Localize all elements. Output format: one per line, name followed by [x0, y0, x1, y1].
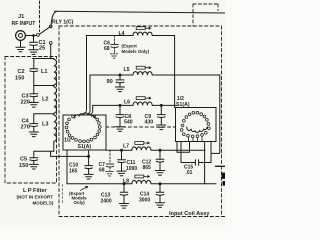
- svg-text:220: 220: [21, 100, 30, 106]
- wire L5 row: [90, 75, 133, 112]
- inductor L3: [54, 114, 57, 152]
- capacitor C15: [181, 160, 211, 166]
- L5 tuning slug: [136, 66, 151, 69]
- wire L4 to S1(B): [174, 36, 176, 108]
- svg-text:(Export: (Export: [122, 44, 138, 49]
- svg-text:L7: L7: [123, 144, 129, 150]
- wire S1(B) to C15: [180, 142, 182, 163]
- ground (J1 shell): [16, 40, 25, 51]
- wire armature riser curve: [51, 11, 57, 27]
- inductor L6: [133, 102, 177, 105]
- rotary switch S1(B) rear wafer box: [176, 108, 217, 142]
- inductor L1: [54, 59, 57, 86]
- relay mechanical linkage (dashed): [39, 1, 41, 32]
- connector J1: [16, 31, 26, 41]
- ground (C8): [115, 127, 124, 132]
- svg-text:J1: J1: [18, 14, 24, 20]
- ground (C6, dashed): [110, 54, 118, 58]
- capacitor C3: [30, 86, 38, 103]
- rotary switch S1(A) front wafer box: [63, 115, 106, 150]
- ground (C1): [29, 50, 38, 55]
- svg-text:3000: 3000: [139, 198, 150, 204]
- svg-text:25: 25: [39, 45, 45, 51]
- svg-text:150: 150: [15, 76, 24, 82]
- capacitor C5: [30, 151, 38, 164]
- dashed smudge lower left: [62, 185, 64, 204]
- svg-text:1/2: 1/2: [64, 138, 71, 144]
- svg-text:1090: 1090: [126, 166, 137, 172]
- node D wire: [34, 150, 54, 152]
- S1(A) wiper: [75, 113, 95, 119]
- wires S1(B) contact drops: [189, 136, 203, 141]
- svg-text:(NOT IN EXPORT: (NOT IN EXPORT: [17, 195, 54, 200]
- svg-text:68: 68: [99, 168, 105, 174]
- wire filter output to S1(A) rotor: [51, 151, 89, 156]
- wire S1(A) to L8 row: [66, 150, 68, 184]
- capacitor C4: [30, 114, 38, 132]
- svg-text:.01: .01: [186, 170, 193, 176]
- wire S1(B) jumper U: [177, 142, 190, 153]
- ground (C3): [29, 103, 38, 108]
- node B wire: [34, 85, 54, 87]
- capacitor 90: [116, 74, 124, 87]
- inductor L4: [133, 32, 175, 35]
- relay RLY 1(C) stationary contact: [37, 34, 40, 37]
- right edge cropped marks: [216, 166, 226, 185]
- svg-text:430: 430: [145, 119, 154, 125]
- wire L8 row: [67, 183, 132, 185]
- export note arrow: [81, 186, 88, 190]
- S1(B) wiper: [187, 127, 207, 133]
- svg-text:Only): Only): [74, 200, 86, 205]
- svg-text:150: 150: [19, 163, 28, 169]
- svg-text:L3: L3: [42, 122, 49, 128]
- capacitor C9: [157, 104, 165, 124]
- capacitor C12: [156, 149, 164, 170]
- svg-text:C2: C2: [18, 69, 25, 75]
- S1(B) contacts: [180, 111, 210, 137]
- capacitor C11: [118, 149, 126, 170]
- svg-text:L P Filter: L P Filter: [23, 188, 48, 194]
- wire top bus from relay to right edge: [55, 11, 226, 13]
- svg-text:90: 90: [107, 79, 113, 85]
- capacitor C6 (dashed, export): [111, 36, 119, 54]
- ground (C9): [157, 125, 166, 130]
- relay armature contact: [49, 25, 52, 28]
- L.P. filter dashed enclosure: [5, 57, 57, 184]
- ground (C14): [155, 203, 164, 208]
- svg-text:Input Coil Assy: Input Coil Assy: [169, 211, 210, 217]
- svg-text:2400: 2400: [101, 198, 112, 204]
- L4 tuning slug: [136, 27, 151, 30]
- ground (C5): [29, 164, 38, 169]
- svg-text:L4: L4: [119, 31, 125, 37]
- ground (C13): [119, 204, 128, 209]
- svg-text:270: 270: [21, 125, 30, 131]
- capacitor C13: [120, 183, 128, 203]
- wire L7 row: [106, 149, 132, 151]
- ground (C7, dashed): [106, 172, 114, 176]
- capacitor C1: [30, 35, 38, 50]
- svg-text:68: 68: [104, 46, 110, 52]
- ground (90 cap): [115, 87, 124, 92]
- svg-text:165: 165: [69, 169, 78, 175]
- switch ganging dashed line: [106, 126, 176, 128]
- ground (C11): [117, 171, 126, 176]
- svg-text:Models Only): Models Only): [122, 49, 150, 54]
- ground (C10): [84, 174, 93, 179]
- wires S1(A) wiper fan: [85, 111, 93, 116]
- relay lower contact to L.P. filter: [49, 42, 52, 45]
- wire S1(B) to L7/L8: [204, 142, 206, 184]
- svg-text:L6: L6: [124, 99, 130, 105]
- inductor L8: [132, 180, 216, 183]
- ground (C4): [29, 132, 38, 137]
- svg-text:RLY 1(C): RLY 1(C): [52, 20, 74, 26]
- capacitor C8: [116, 104, 124, 126]
- svg-text:L1: L1: [41, 69, 48, 75]
- svg-text:L8: L8: [123, 179, 129, 185]
- dashed stub top right: [193, 4, 218, 26]
- inductor L7: [132, 147, 205, 150]
- capacitor C10: [85, 150, 93, 174]
- svg-text:C5: C5: [20, 157, 27, 163]
- svg-text:S1(A): S1(A): [176, 102, 190, 108]
- node A wire (filter input): [33, 58, 54, 60]
- svg-text:L5: L5: [124, 67, 130, 73]
- wire S1(B) right drop: [210, 142, 212, 163]
- svg-text:L2: L2: [42, 97, 49, 103]
- svg-text:MODELS): MODELS): [33, 200, 54, 205]
- S1(A) contacts: [65, 115, 101, 143]
- L6 tuning slug: [136, 97, 151, 100]
- capacitor C14: [156, 183, 164, 203]
- inductor L2: [54, 86, 57, 114]
- capacitor C2: [30, 59, 38, 86]
- wire L5 right return: [211, 75, 220, 153]
- svg-text:540: 540: [124, 119, 133, 125]
- relay armature arm: [39, 27, 49, 34]
- wire L6 row: [93, 105, 133, 112]
- wire L4 row: [87, 36, 134, 111]
- node C wire: [34, 113, 54, 115]
- wire J1 to relay contact: [25, 35, 36, 37]
- L8 tuning slug: [135, 175, 150, 178]
- svg-text:RF INPUT: RF INPUT: [12, 21, 37, 27]
- capacitor C7 (dashed, export): [106, 150, 114, 171]
- L7 tuning slug: [135, 142, 150, 145]
- inductor L5: [133, 72, 220, 75]
- svg-text:865: 865: [143, 165, 152, 171]
- wire relay to filter input: [50, 44, 52, 58]
- Input Coil Assy dashed enclosure: [59, 26, 225, 217]
- svg-text:S1(A): S1(A): [78, 144, 92, 150]
- ground (C12): [155, 171, 164, 176]
